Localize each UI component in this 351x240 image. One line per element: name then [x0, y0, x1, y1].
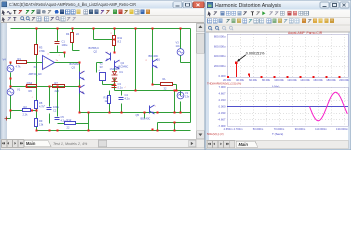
- svg-text:4.7k: 4.7k: [16, 64, 22, 68]
- svg-text:Q4: Q4: [121, 61, 125, 65]
- svg-text:2.2k: 2.2k: [23, 113, 29, 117]
- svg-text:R10: R10: [104, 96, 109, 100]
- svg-text:800.000u: 800.000u: [214, 34, 226, 38]
- svg-text:BD140C: BD140C: [141, 117, 151, 121]
- wire col174: [174, 91, 176, 113]
- right tab bar: [206, 140, 348, 149]
- svg-text:400.000u: 400.000u: [214, 54, 226, 58]
- resistor RL: [161, 77, 173, 90]
- top chart y labels: [214, 34, 226, 78]
- right window frame: [205, 0, 351, 150]
- bottom y labels: [218, 85, 226, 128]
- source V4 input: [3, 58, 14, 72]
- svg-text:BD139C: BD139C: [149, 54, 159, 58]
- wire col114: [114, 29, 116, 91]
- wire v3 column: [181, 29, 191, 63]
- transistor Q2: [89, 46, 111, 61]
- wire r2 row: [11, 110, 37, 112]
- wire r4 column: [72, 29, 74, 51]
- svg-text:0.2u: 0.2u: [118, 86, 124, 90]
- transistor Q4: [115, 60, 129, 69]
- svg-text:4.667: 4.667: [219, 92, 226, 96]
- svg-text:13v: 13v: [176, 44, 181, 48]
- svg-text:8.2: 8.2: [118, 40, 122, 44]
- left tab bar: [1, 139, 204, 148]
- svg-text:Q1: Q1: [157, 58, 161, 62]
- wire v2 bias: [97, 63, 115, 85]
- svg-text:BC556,C: BC556,C: [89, 46, 100, 50]
- svg-text:V1: V1: [17, 88, 21, 92]
- wire r6r7 row: [11, 86, 80, 88]
- svg-text:Q3: Q3: [72, 66, 76, 70]
- bottom chart grid: [227, 87, 348, 126]
- zero trace: [227, 106, 348, 108]
- source V2 bias: [99, 62, 106, 81]
- wire left column: [7, 63, 11, 119]
- left vscrollbar: [196, 23, 205, 139]
- harmonic bars: [227, 61, 340, 77]
- svg-text:Q2: Q2: [94, 50, 98, 54]
- pin numbers: [32, 33, 157, 108]
- resistor R10: [104, 96, 111, 104]
- resistor R12: [65, 118, 76, 129]
- junction dots: [10, 28, 182, 132]
- top chart title: [288, 31, 323, 35]
- t axis label: [272, 132, 283, 136]
- resistor R9: [35, 119, 44, 127]
- resistor R8: [35, 101, 45, 109]
- wire r3 column: [36, 29, 38, 45]
- svg-text:0.000151%: 0.000151%: [246, 52, 265, 56]
- wire opamp out row: [55, 62, 80, 64]
- svg-text:200.00k: 200.00k: [339, 78, 349, 82]
- svg-text:4.2u: 4.2u: [125, 97, 131, 101]
- diode D2: [112, 78, 118, 82]
- resistor R2: [23, 105, 31, 116]
- f axis label: [272, 85, 279, 89]
- svg-text:R2: R2: [24, 105, 28, 109]
- wire c2 column: [49, 87, 51, 124]
- svg-text:Main: Main: [26, 141, 36, 146]
- wire q1 column: [152, 29, 154, 85]
- svg-text:50.000m: 50.000m: [253, 127, 264, 131]
- svg-text:V3: V3: [176, 41, 180, 45]
- transistor Q5: [136, 105, 155, 121]
- svg-text:20.00k: 20.00k: [223, 78, 232, 82]
- resistor R6: [27, 81, 37, 93]
- svg-text:27k4: 27k4: [27, 81, 33, 85]
- wire sub row y39: [94, 39, 115, 41]
- svg-text:7.000: 7.000: [219, 85, 226, 89]
- svg-text:C2: C2: [53, 109, 57, 113]
- svg-text:600.000u: 600.000u: [214, 44, 226, 48]
- ground IN: [5, 117, 8, 121]
- wire right rail: [190, 29, 192, 123]
- wire col93: [93, 29, 95, 40]
- svg-text:500u(V(L)) (V): 500u(V(L)) (V): [207, 132, 224, 136]
- wire r10 column: [109, 91, 111, 113]
- svg-text:100u: 100u: [53, 105, 59, 109]
- wire out row: [115, 90, 191, 92]
- bottom x labels: [224, 127, 349, 131]
- svg-text:V2: V2: [100, 62, 104, 66]
- top chart grid: [227, 34, 348, 77]
- svg-text:BC546C: BC546C: [119, 65, 129, 69]
- svg-text:100u: 100u: [62, 43, 68, 47]
- source V3: [176, 41, 184, 56]
- wire driver column: [79, 63, 81, 113]
- svg-text:Test 1, Models 2, 4%: Test 1, Models 2, 4%: [53, 142, 88, 146]
- left window frame: [0, 0, 205, 150]
- svg-text:13v: 13v: [185, 95, 190, 99]
- wire q3 link: [73, 50, 80, 52]
- wire col135: [135, 29, 137, 91]
- svg-text:-2.333: -2.333: [218, 111, 226, 115]
- svg-text:200.000u: 200.000u: [214, 64, 226, 68]
- svg-text:160.00k: 160.00k: [313, 78, 323, 82]
- svg-text:R12: R12: [67, 118, 72, 122]
- svg-text:C1: C1: [62, 40, 66, 44]
- wire right low seg: [158, 123, 191, 131]
- chart client: [209, 33, 348, 141]
- svg-text:4.650m: 4.650m: [224, 127, 234, 131]
- svg-text:4.700m: 4.700m: [234, 127, 244, 131]
- diode D1: [110, 67, 124, 75]
- top chart x labels: [223, 78, 349, 82]
- svg-text:140.00k: 140.00k: [300, 78, 310, 82]
- cursor callout: [237, 52, 265, 62]
- svg-text:180.00k: 180.00k: [326, 78, 336, 82]
- wire c4 column: [121, 91, 123, 113]
- wire bottom rail: [37, 130, 191, 132]
- svg-text:C4: C4: [125, 93, 129, 97]
- wire divider column: [36, 55, 38, 131]
- capacitor C3: [112, 82, 124, 90]
- svg-text:70.000m: 70.000m: [274, 127, 285, 131]
- wire r1 to opamp: [27, 62, 43, 64]
- output sine: [310, 92, 348, 120]
- capacitor C5: [55, 115, 67, 122]
- svg-text:R6: R6: [29, 89, 33, 93]
- capacitor C4: [119, 93, 131, 101]
- svg-text:1N4820: 1N4820: [110, 67, 120, 71]
- svg-text:0.000: 0.000: [219, 74, 226, 78]
- svg-text:100.00k: 100.00k: [274, 78, 284, 82]
- transistor Q3 lower: [80, 85, 85, 94]
- svg-text:R4: R4: [66, 32, 70, 36]
- vl trace label: [207, 132, 224, 136]
- svg-text:2.333: 2.333: [219, 98, 226, 102]
- svg-text:BC546C: BC546C: [70, 62, 80, 66]
- left toolbars: [1, 9, 204, 24]
- op-amp X1: [29, 54, 59, 77]
- svg-text:C:\MC(E)\DATA\Retro\Aqust-AMP\: C:\MC(E)\DATA\Retro\Aqust-AMP\Retro_4_li…: [9, 2, 137, 7]
- svg-text:90.000m: 90.000m: [295, 127, 306, 131]
- svg-text:Q5: Q5: [136, 113, 140, 117]
- wire v1b column: [180, 91, 182, 113]
- source V1 lower: [177, 91, 190, 99]
- left canvas: [1, 23, 197, 139]
- svg-text:C3: C3: [118, 82, 122, 86]
- svg-text:R11: R11: [118, 36, 123, 40]
- svg-text:470k: 470k: [39, 49, 45, 53]
- svg-text:Main: Main: [239, 142, 249, 147]
- svg-text:R1: R1: [18, 57, 22, 61]
- wire mid rail: [80, 112, 191, 114]
- svg-text:110.000m: 110.000m: [315, 127, 328, 131]
- wire rl link: [153, 85, 177, 91]
- resistor R7: [53, 81, 65, 93]
- svg-text:C5: C5: [61, 115, 65, 119]
- svg-text:130.000m: 130.000m: [336, 127, 349, 131]
- svg-text:D1: D1: [120, 70, 124, 74]
- svg-text:120.00k: 120.00k: [287, 78, 297, 82]
- svg-text:R7: R7: [55, 81, 59, 85]
- svg-text:60.00k: 60.00k: [249, 78, 258, 82]
- svg-text:RL: RL: [163, 77, 167, 81]
- svg-text:-4.667: -4.667: [218, 118, 226, 122]
- svg-text:T (Secs): T (Secs): [272, 132, 283, 136]
- svg-text:220: 220: [55, 89, 60, 93]
- right toolbars: [206, 10, 350, 33]
- resistor R3: [35, 45, 46, 55]
- thd trace label: [207, 81, 241, 85]
- svg-text:Harmonic Distortion Analysis: Harmonic Distortion Analysis: [215, 3, 281, 9]
- resistor R1: [16, 57, 27, 68]
- svg-text:X1: X1: [34, 65, 38, 69]
- svg-text:R8: R8: [39, 101, 43, 105]
- capacitor C1: [55, 40, 68, 48]
- svg-text:3V: 3V: [100, 65, 103, 69]
- svg-text:40.00k: 40.00k: [236, 78, 245, 82]
- transistor Q1: [149, 54, 161, 68]
- svg-text:R3: R3: [39, 46, 43, 50]
- wire q5 stub: [145, 106, 150, 119]
- svg-text:13k: 13k: [39, 123, 44, 127]
- svg-text:V4: V4: [3, 58, 7, 62]
- resistor R4: [66, 32, 79, 42]
- svg-text:ABT44_AD: ABT44_AD: [29, 72, 42, 76]
- source V5 gen: [7, 88, 21, 96]
- wire c5 branch: [58, 87, 89, 131]
- svg-text:V1: V1: [185, 91, 189, 95]
- resistor R11: [113, 36, 123, 46]
- wire c1 column: [50, 29, 65, 58]
- transistor Q3 upper: [70, 62, 85, 80]
- svg-text:R9: R9: [39, 119, 43, 123]
- svg-text:0.000: 0.000: [219, 105, 226, 109]
- capacitor C2: [44, 105, 60, 113]
- svg-text:80.00k: 80.00k: [262, 78, 271, 82]
- wire top rail: [11, 28, 191, 30]
